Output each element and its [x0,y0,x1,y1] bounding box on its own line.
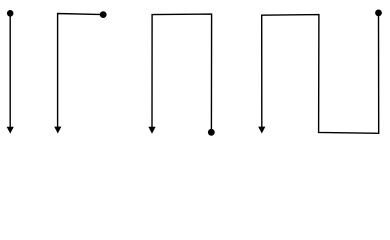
wire [262,13,379,133]
wire [152,14,212,132]
arrowhead 2 [54,127,61,134]
arrowhead 3 [148,127,155,134]
node start dot 1 [7,10,14,17]
node start dot 2 [100,11,107,18]
node start dot 4 [375,10,382,17]
node start dot 3 [208,129,215,136]
arrowhead 4 [258,127,265,134]
wire [9,13,11,127]
wire [58,14,104,128]
arrowhead 1 [7,127,14,134]
